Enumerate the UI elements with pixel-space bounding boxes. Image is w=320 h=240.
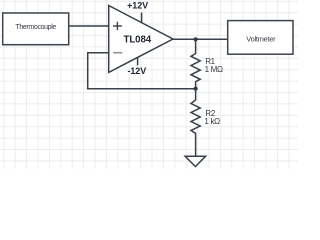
voltmeter M1 xyxy=(228,21,293,55)
svg-text:1 MΩ: 1 MΩ xyxy=(205,65,223,74)
node B xyxy=(194,87,198,91)
svg-text:+12V: +12V xyxy=(127,0,148,10)
wire xyxy=(87,88,196,90)
resistor R1 xyxy=(191,39,223,88)
ground xyxy=(185,156,206,166)
wire xyxy=(88,52,109,54)
svg-text:-12V: -12V xyxy=(127,66,146,76)
svg-text:Voltmeter: Voltmeter xyxy=(246,35,276,44)
svg-text:TL084: TL084 xyxy=(124,35,152,46)
wire xyxy=(87,52,89,89)
power +12V xyxy=(127,0,148,22)
op-amp U1 xyxy=(109,6,173,73)
resistor R2 xyxy=(191,89,220,156)
node A xyxy=(194,37,198,41)
power -12V xyxy=(127,57,146,76)
svg-text:1 kΩ: 1 kΩ xyxy=(204,117,220,126)
thermocouple TC1 xyxy=(3,13,69,45)
svg-text:Thermocouple: Thermocouple xyxy=(15,24,56,31)
wire xyxy=(173,38,228,40)
wire xyxy=(69,25,109,27)
